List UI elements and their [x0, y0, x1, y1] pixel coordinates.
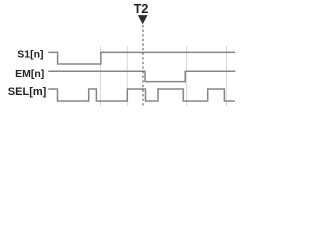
svg-text:EM[n]: EM[n]: [15, 68, 44, 80]
svg-text:SEL[m]: SEL[m]: [8, 86, 47, 98]
svg-text:T2: T2: [134, 2, 149, 16]
svg-text:S1[n]: S1[n]: [17, 49, 43, 61]
